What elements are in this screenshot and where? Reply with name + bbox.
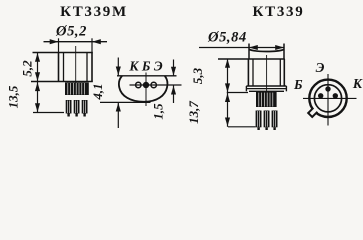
svg-text:К Б Э: К Б Э	[128, 59, 162, 74]
dim 4,1 upper arrow	[117, 58, 119, 76]
body inner line left	[252, 59, 254, 86]
extension line left	[58, 38, 60, 52]
pin circle inner	[314, 85, 341, 112]
dim 1,5 upper arrow	[173, 60, 175, 76]
arrowhead right inward	[92, 39, 101, 44]
bottom tangent line	[100, 101, 151, 103]
label 1,5 rotated	[151, 103, 166, 120]
extension/cap side left	[248, 44, 250, 60]
svg-text:5,3: 5,3	[190, 67, 205, 84]
lead 2 KT339	[264, 111, 270, 131]
flange bottom line	[249, 90, 284, 92]
extension line right	[91, 38, 93, 52]
dimension line d5.2	[44, 41, 108, 43]
dim 1,5 lower arrow	[173, 86, 175, 104]
vertical dim 13,5	[37, 82, 39, 113]
svg-text:13,7: 13,7	[186, 101, 201, 124]
flange top line	[246, 85, 286, 87]
extension/cap side right	[283, 44, 285, 60]
flange left side	[245, 86, 247, 91]
label 13,7 rotated	[186, 101, 201, 124]
lead 2	[74, 100, 80, 117]
flange mid line	[246, 88, 286, 90]
body right side	[91, 53, 93, 82]
label 4,1 rotated	[90, 83, 105, 100]
horizontal axis	[303, 97, 357, 99]
body left side	[247, 59, 249, 86]
extension line flange KT339	[227, 92, 248, 94]
body inner line right	[86, 53, 88, 82]
svg-text:КТ339: КТ339	[253, 4, 305, 20]
axis line	[75, 46, 77, 84]
vertical dim 13,7	[227, 93, 229, 127]
svg-text:К: К	[352, 76, 363, 91]
dimension line d5.84	[199, 47, 284, 49]
flat top line of D-view	[117, 75, 177, 77]
pin dot K right	[333, 93, 338, 98]
pin dot E top	[325, 86, 330, 91]
vertical dim 5,3	[227, 59, 229, 93]
body right side	[283, 59, 285, 86]
svg-text:4,1: 4,1	[90, 83, 105, 100]
svg-text:1,5: 1,5	[151, 103, 166, 120]
key notch	[308, 108, 317, 117]
svg-text:Ø5,84: Ø5,84	[207, 30, 247, 46]
arrowhead right outward	[275, 45, 284, 50]
pin dot K (ring)	[136, 82, 141, 87]
body inner line left	[63, 53, 65, 82]
svg-text:Ø5,2: Ø5,2	[55, 24, 87, 40]
svg-text:Э: Э	[316, 60, 325, 75]
lead 1	[66, 100, 72, 117]
hatched bushing	[65, 82, 89, 95]
package body KT339M top line	[33, 52, 93, 54]
flange right side	[285, 86, 287, 91]
dots line	[130, 84, 182, 86]
label 5,3 rotated	[190, 67, 205, 84]
label 5,2 rotated	[20, 60, 35, 77]
body bottom line	[31, 81, 93, 83]
pin dot B left	[318, 93, 323, 98]
label 13,5 rotated	[6, 85, 21, 108]
svg-text:5,2: 5,2	[20, 60, 35, 77]
pin dot B (solid)	[143, 82, 149, 88]
body top line KT339	[218, 58, 285, 60]
lead 3	[82, 100, 88, 117]
pin circle outer	[309, 80, 346, 117]
dim 4,1 lower arrow	[117, 103, 119, 129]
D-shape outline	[119, 76, 168, 102]
D-view axis	[145, 73, 147, 107]
lead 3 KT339	[272, 111, 278, 131]
extension line lead bottom KT339	[228, 126, 256, 128]
arrowhead left outward	[249, 45, 258, 50]
hatched bushing KT339	[256, 92, 277, 107]
vertical dim 5,2	[37, 53, 39, 82]
lead 1 KT339	[256, 111, 262, 131]
axis line	[266, 55, 268, 91]
svg-text:КТ339М: КТ339М	[60, 4, 128, 20]
vertical axis	[327, 74, 329, 126]
pin dot E (ring)	[151, 82, 156, 87]
svg-text:13,5: 13,5	[6, 85, 21, 108]
body inner line right	[279, 59, 281, 86]
cap top rim	[249, 49, 284, 51]
body left side	[58, 53, 60, 82]
svg-text:Б: Б	[293, 77, 303, 92]
arrowhead left inward	[50, 39, 59, 44]
extension line lead bottom	[33, 112, 64, 114]
